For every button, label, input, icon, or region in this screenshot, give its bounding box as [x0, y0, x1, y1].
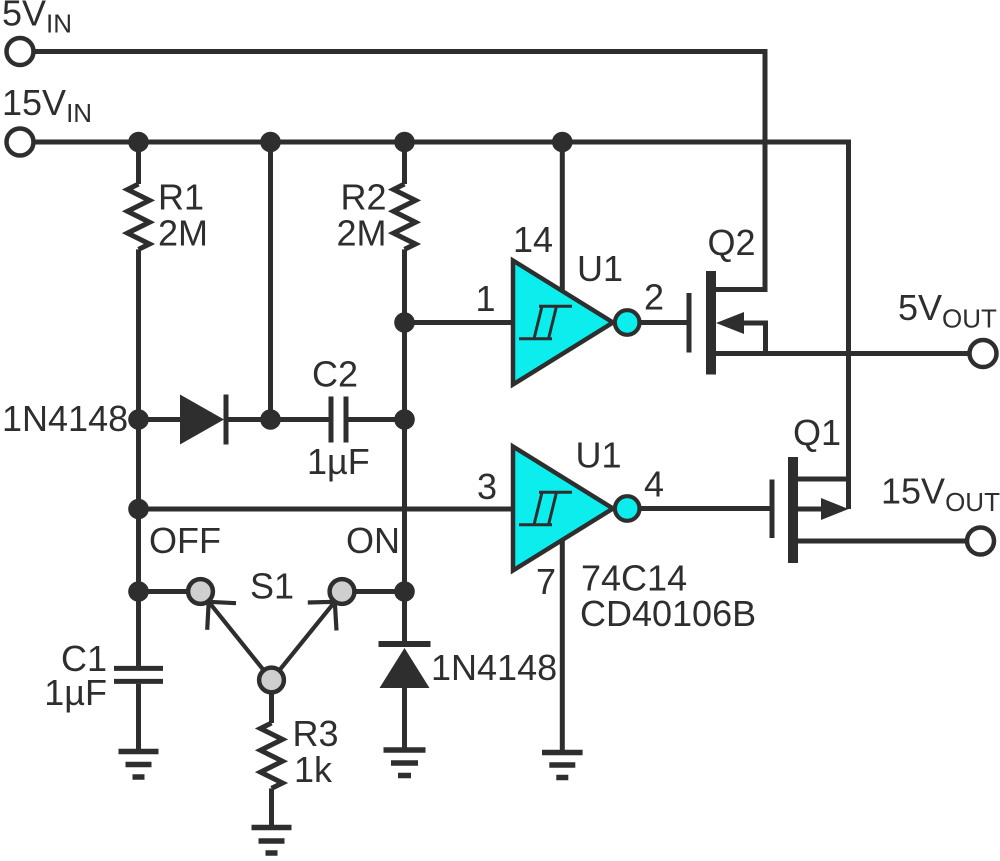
svg-text:Q2: Q2: [708, 222, 756, 263]
diode D2 triangle: [380, 648, 430, 688]
node dot 15V/pin14: [552, 132, 573, 153]
svg-text:CD40106B: CD40106B: [580, 593, 756, 634]
svg-text:2M: 2M: [336, 213, 386, 254]
switch blade OFF: [207, 602, 271, 680]
node dot ON/R2: [394, 581, 415, 602]
wire switch pole to R3: [269, 690, 274, 723]
diode D1 cathode bar: [224, 395, 229, 445]
diode D2 cathode bar: [379, 641, 431, 647]
node dot pin3/left: [128, 499, 149, 520]
wire 15VIN rail: [34, 142, 849, 509]
wire pin 2: [638, 320, 690, 325]
svg-text:S1: S1: [250, 566, 294, 607]
svg-text:R3: R3: [293, 713, 339, 754]
svg-text:Q1: Q1: [793, 412, 841, 453]
ground D2: [384, 750, 426, 776]
wire 15VOUT: [798, 539, 967, 544]
transistor Q1 arrow shaft: [798, 507, 823, 512]
node dot 15V/R2: [394, 132, 415, 153]
wire OFF row: [139, 589, 190, 594]
wire R2 column upper: [402, 142, 407, 184]
wire C2 right: [349, 417, 405, 422]
svg-text:5VOUT: 5VOUT: [898, 287, 997, 334]
wire pin 7: [560, 540, 565, 750]
transistor Q1 channel bar: [788, 457, 798, 563]
ground pin 7: [542, 753, 583, 778]
wire left column upper: [136, 142, 141, 184]
terminal 5VOUT: [970, 340, 997, 367]
svg-text:3: 3: [477, 466, 497, 507]
node dot 15V/R1: [128, 132, 149, 153]
wire R3 to ground: [269, 788, 274, 825]
transistor Q1 arrow: [821, 498, 849, 520]
resistor R1: [128, 184, 150, 249]
wire pin 3: [139, 507, 512, 512]
transistor Q2 source link: [744, 323, 766, 354]
switch contact ON: [330, 579, 355, 604]
switch S1: [188, 579, 354, 692]
wire left column lower: [136, 249, 141, 666]
svg-text:1k: 1k: [294, 749, 333, 790]
terminal 15VIN: [7, 129, 34, 156]
wire C2 left: [271, 417, 329, 422]
terminal 15VOUT: [967, 528, 994, 555]
capacitor C1 plate bottom: [114, 679, 163, 684]
transistor Q1 gate bar: [770, 480, 775, 539]
svg-text:1µF: 1µF: [44, 672, 107, 713]
wire pin 14: [560, 142, 565, 292]
wire 5VOUT: [716, 351, 969, 356]
svg-text:R1: R1: [158, 177, 204, 218]
wire D1 cathode: [226, 417, 271, 422]
switch blade ON: [272, 602, 337, 680]
op-amp U1 inverter A: [513, 261, 640, 385]
resistor R3: [261, 723, 283, 788]
transistor Q1 drain link: [798, 477, 849, 482]
capacitor C2 plate right: [344, 397, 349, 443]
node dot 15V/middle: [260, 132, 281, 153]
svg-text:U1: U1: [576, 435, 622, 476]
svg-text:7: 7: [536, 561, 556, 602]
svg-text:ON: ON: [346, 520, 400, 561]
svg-text:1: 1: [475, 278, 495, 319]
svg-text:OFF: OFF: [149, 520, 221, 561]
svg-text:15VIN: 15VIN: [2, 82, 92, 128]
svg-text:2M: 2M: [158, 213, 208, 254]
wire ON row: [354, 589, 405, 594]
node dot D1/middle: [260, 409, 281, 430]
capacitor C2 plate left: [329, 397, 334, 443]
svg-text:5VIN: 5VIN: [2, 0, 72, 39]
svg-text:1N4148: 1N4148: [431, 647, 557, 688]
svg-text:15VOUT: 15VOUT: [881, 471, 1000, 518]
transistor Q2 gate bar: [687, 293, 692, 353]
svg-text:U1: U1: [577, 248, 623, 289]
node dot OFF/left: [128, 581, 149, 602]
wire C1 to ground: [136, 684, 141, 749]
svg-text:4: 4: [644, 464, 664, 505]
op-amp U1 inverter B: [513, 447, 640, 571]
wire D1 anode: [139, 417, 181, 422]
svg-text:C2: C2: [312, 354, 358, 395]
capacitor C1 plate top: [114, 666, 163, 671]
wire 5VIN rail: [34, 52, 766, 290]
wire middle column: [268, 142, 273, 420]
node dot C2/R2: [394, 409, 415, 430]
diode D1 triangle: [180, 395, 224, 445]
ground R3: [252, 828, 292, 854]
terminal 5VIN: [7, 38, 34, 65]
svg-text:R2: R2: [340, 177, 386, 218]
svg-text:1N4148: 1N4148: [2, 398, 128, 439]
resistor R2: [394, 184, 416, 249]
switch pole: [259, 668, 284, 693]
transistor Q2 channel bar: [706, 271, 716, 375]
wire pin 4: [638, 506, 773, 511]
svg-text:14: 14: [513, 219, 553, 260]
transistor Q2 arrow: [716, 312, 744, 334]
node dot D1/left: [128, 409, 149, 430]
svg-text:1µF: 1µF: [307, 441, 370, 482]
wire R2 column lower: [402, 249, 407, 641]
ground C1: [119, 752, 159, 778]
wire pin 1: [405, 320, 512, 325]
wire D2 to ground: [402, 688, 407, 748]
node dot pin1/R2: [394, 312, 415, 333]
switch contact OFF: [188, 579, 213, 604]
svg-text:2: 2: [644, 277, 664, 318]
